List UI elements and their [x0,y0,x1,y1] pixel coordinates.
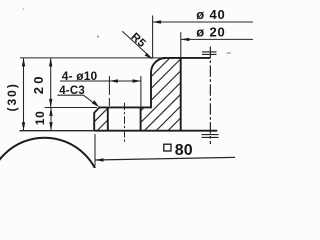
svg-text:4-C3: 4-C3 [59,85,85,97]
svg-text:(30): (30) [5,82,19,111]
dimension ø20 extension line [180,32,182,58]
leader 4-C3 arrow [92,100,99,107]
dimension square-80 extension line [94,134,96,166]
dimension 10 arrows [49,107,52,130]
dimension ø20 arrow [181,38,190,41]
scan speck 2 [227,52,232,54]
part outline: R5 fillet arc [151,58,166,73]
dimension (30) line [23,58,25,130]
dimension square-80 square symbol [164,144,171,151]
part outline: bottom face edge [94,130,217,132]
bolt hole centerline [124,103,126,143]
dimension ø40 arrow [153,20,162,23]
part outline: flange left edge [93,112,95,131]
svg-text:ø 20: ø 20 [196,24,225,39]
part outline: boss left edge [150,72,152,107]
leader R5 line [122,31,152,58]
dimension ø20 line [181,38,253,40]
extension line: top face to left dims [20,57,163,59]
svg-text:4- ø10: 4- ø10 [62,69,98,83]
svg-text:80: 80 [175,142,193,159]
scan speck 3 [23,8,25,10]
dimension ø40 line [153,21,253,23]
dimension 4-ø10 arrows [109,79,141,82]
leader R5 arrow [145,53,153,59]
section hatching (chamfered flange piece) [81,50,188,135]
dimension 4-ø10 extension lines [109,76,140,107]
dimension 20 arrows [49,58,52,108]
extension line: flange top to left dims [45,107,97,109]
dimension 4-ø10 line [60,80,141,82]
partial circle of adjacent view [0,138,102,240]
svg-text:20: 20 [31,73,46,94]
main centerline [209,47,211,145]
dimension square-80 line [95,157,235,160]
part outline: flange top face [99,106,152,108]
extension line: bottom face to left dims [20,130,95,132]
part outline: top face edge [163,57,211,59]
dimension 10 line [50,108,52,131]
part outline: chamfer C3 [94,107,99,112]
scan speck 1 [97,35,99,37]
leader 4-C3 shelf [57,94,83,96]
dimension ø40 extension line [152,16,154,59]
part outline: bolt hole right wall [140,107,142,130]
section hatching (main block) [81,50,260,135]
dimension 20 line [50,58,52,107]
leader 4-C3 line [83,95,97,105]
svg-text:ø 40: ø 40 [196,7,225,22]
dimension square-80 arrow [95,158,104,161]
dimension (30) arrows [22,58,25,131]
symmetry mark top [202,52,217,55]
symmetry mark bottom [202,135,219,138]
part outline: bolt hole left wall [107,107,109,130]
svg-text:10: 10 [33,110,47,125]
part outline: center hole wall [180,58,182,131]
